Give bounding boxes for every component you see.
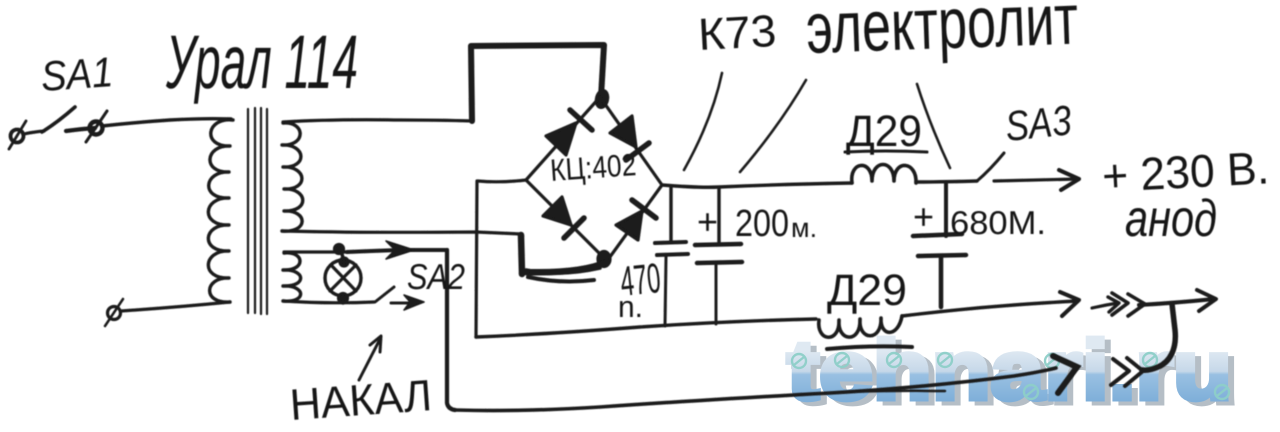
node bridge top [595, 90, 609, 109]
stray line [827, 346, 912, 349]
wire SA3 output arrow [994, 179, 1078, 181]
svg-text:680М.: 680М. [950, 204, 1046, 241]
diode VD3 lower-left [543, 197, 571, 225]
inductor L1 Д29 [852, 165, 916, 184]
wire minus bus horizontal [476, 319, 816, 337]
transformer secondary 2 [283, 253, 301, 301]
node bridge bottom [598, 252, 610, 267]
pointer line to 680 node [917, 84, 950, 168]
capacitor C3 680m lead [944, 183, 948, 236]
svg-text:электролит: электролит [805, 0, 1080, 69]
capacitor C2 200m lead [717, 188, 720, 243]
wire secondary2 top [284, 250, 347, 253]
bridge rectifier КЦ402 diamond [526, 97, 662, 261]
diode VD4 lower-right [616, 211, 642, 240]
capacitor C1 470n lead [669, 188, 672, 241]
svg-text:К73: К73 [697, 5, 778, 60]
switch SA3 lever [977, 153, 1004, 181]
switch SA2 lever [375, 287, 394, 302]
diode VD1 upper-left [546, 123, 576, 155]
watermark tehnari.ru [787, 323, 1238, 421]
chevrons and arrow top output [1092, 303, 1118, 308]
pointer line электролит [740, 80, 806, 172]
switch SA2 output arrow [391, 302, 413, 305]
wire bottom long [455, 368, 1056, 411]
switch SA1 lever [42, 107, 75, 132]
terminal bottom left [108, 307, 121, 320]
wire to transformer primary [102, 119, 231, 126]
wire branch down curve [1142, 304, 1175, 370]
svg-text:200: 200 [735, 203, 789, 245]
svg-text:Д29: Д29 [846, 107, 922, 156]
wire L2 to arrow [902, 301, 1077, 316]
inductor L2 Д29 [819, 316, 902, 337]
transformer T1 primary winding [208, 120, 233, 302]
arrowhead bottom wire [1053, 356, 1077, 393]
wire minus bus vertical [476, 181, 477, 337]
transformer core [248, 108, 267, 314]
svg-text:n.: n. [618, 291, 643, 324]
svg-text:м.: м. [791, 213, 817, 243]
svg-text:анод: анод [1125, 190, 1217, 248]
node lamp top [335, 245, 344, 254]
svg-text:Д29: Д29 [827, 266, 907, 315]
wire SA2 vertical [447, 250, 455, 410]
wire bridge right vertex to coil [662, 183, 852, 187]
svg-text:SA1: SA1 [39, 48, 114, 100]
wire secondary1 top [283, 120, 472, 122]
svg-text:SA3: SA3 [1003, 96, 1074, 150]
chevrons bottom [1111, 359, 1129, 385]
wire secondary2 top with arrow [347, 250, 447, 252]
thick wire to bridge top [471, 45, 604, 121]
wire secondary1 bottom [282, 231, 521, 234]
svg-text:+: + [913, 196, 934, 237]
pointer line К73 [684, 73, 722, 170]
wire bridge left vertex [478, 180, 526, 182]
wire secondary2 bottom [283, 301, 374, 303]
diode VD2 upper-right [610, 116, 636, 147]
transformer secondary 1 [282, 123, 303, 231]
thick wire bridge bottom to secondary [523, 262, 607, 272]
lamp HL1 [325, 260, 361, 296]
switch SA1 terminal left [11, 130, 24, 143]
svg-text:Урал 114: Урал 114 [165, 20, 358, 105]
svg-text:SA2: SA2 [407, 256, 465, 297]
pointer arrow НАКАЛ [359, 341, 379, 380]
wire coil to node [916, 181, 977, 182]
svg-text:+: + [697, 201, 718, 242]
switch SA1 contact right [66, 128, 95, 131]
node lamp bottom [339, 294, 348, 303]
svg-text:НАКАЛ: НАКАЛ [288, 371, 433, 430]
wire primary bottom [121, 302, 230, 311]
wire [24, 131, 44, 134]
